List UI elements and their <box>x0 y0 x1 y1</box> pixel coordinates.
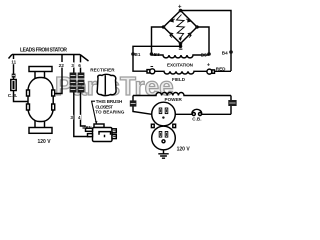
wire 4 to BRN brush terminal <box>81 93 86 127</box>
outlet slots top <box>159 108 168 137</box>
svg-text:3: 3 <box>70 115 73 120</box>
terminal dot B5 <box>207 52 211 56</box>
svg-text:4: 4 <box>78 115 81 120</box>
splice on lead 11 <box>12 74 16 78</box>
plus brush circle <box>207 69 212 74</box>
label 22 <box>58 62 65 69</box>
duplex receptacle bottom outlet <box>152 126 176 150</box>
RED wire to right border <box>215 70 232 72</box>
twist-lock receptacle body 120V left <box>29 67 52 72</box>
svg-text:+: + <box>178 5 182 11</box>
circuit breaker C.B. right <box>192 113 195 116</box>
callout leader to brush <box>92 101 97 123</box>
diode lower-right <box>187 32 191 36</box>
svg-text:C.B.: C.B. <box>192 117 201 122</box>
label 3 <box>70 62 74 68</box>
svg-text:120 V: 120 V <box>38 139 52 145</box>
minus brush circle <box>150 69 155 74</box>
svg-text:BRN: BRN <box>82 125 91 130</box>
svg-text:22: 22 <box>59 63 65 69</box>
svg-text:120 V: 120 V <box>177 146 191 152</box>
label minus brush <box>151 66 154 67</box>
duplex receptacle top outlet <box>152 102 176 126</box>
svg-text:B3: B3 <box>154 52 160 57</box>
svg-text:B1: B1 <box>135 52 141 57</box>
svg-text:RECTIFIER: RECTIFIER <box>90 68 115 73</box>
svg-text:C.B.: C.B. <box>8 93 18 99</box>
svg-text:11: 11 <box>11 60 16 65</box>
power wire right down to C.B. <box>230 96 232 115</box>
receptacle side tabs <box>27 90 30 96</box>
wire stator lead 3 <box>73 55 75 73</box>
bracket LEADS FROM STATOR <box>9 55 89 62</box>
terminal dot B1 <box>131 52 135 56</box>
svg-text:POWER: POWER <box>165 97 183 102</box>
svg-text:+: + <box>207 62 210 68</box>
terminal block right <box>228 100 236 106</box>
terminal block left <box>130 100 137 106</box>
bridge junction dots <box>162 9 199 48</box>
label minus below bridge <box>179 49 183 50</box>
svg-text:FIELD: FIELD <box>172 77 186 82</box>
terminal block connectors leads 3/6 <box>70 73 85 93</box>
label 11 <box>11 59 17 65</box>
svg-text:6: 6 <box>78 63 81 69</box>
AC wire left vertex to B3 <box>152 27 164 55</box>
terminal dot B4 <box>229 50 233 54</box>
svg-text:EXCITATION: EXCITATION <box>167 62 194 67</box>
svg-text:B4: B4 <box>222 50 228 55</box>
rectifier blob <box>97 74 116 95</box>
power wire left down to duplex receptacle <box>133 96 152 115</box>
wire C.B. to receptacle <box>14 91 28 102</box>
svg-text:TO BEARING: TO BEARING <box>95 110 124 115</box>
circuit breaker C.B. left <box>11 80 16 91</box>
power winding coil <box>133 92 231 95</box>
label 4 lower <box>77 115 81 120</box>
wire stator lead 11 <box>13 55 15 80</box>
AC wire right vertex to B5 <box>197 27 209 55</box>
wire stator lead 22 to receptacle <box>53 55 62 94</box>
svg-text:RED: RED <box>216 67 226 72</box>
label 6 <box>78 62 82 68</box>
wire stator lead 6 <box>80 55 82 73</box>
excitation winding coil <box>152 55 210 58</box>
svg-text:B5: B5 <box>201 52 207 57</box>
DC minus wire: bottom vertex to B1 and minus brush <box>133 44 181 72</box>
varistor zigzag inside bridge <box>177 15 185 40</box>
diode lower-left <box>169 32 173 36</box>
wire 3 to lower brush <box>74 93 91 137</box>
diode upper-left <box>170 18 174 22</box>
plus brush tab <box>212 70 215 73</box>
svg-text:3: 3 <box>71 63 74 69</box>
diode upper-right <box>187 18 191 22</box>
bridge rectifier diamond <box>164 11 198 44</box>
field winding coil <box>155 71 207 74</box>
minus brush tab <box>147 70 150 73</box>
DC plus wire: top vertex to right border down to + brush <box>181 11 232 72</box>
label 3 lower <box>70 115 74 120</box>
svg-text:LEADS FROM STATOR: LEADS FROM STATOR <box>20 48 67 54</box>
brush holder assembly <box>94 124 104 128</box>
terminal dot B3 <box>150 52 154 56</box>
ground symbol <box>158 150 168 158</box>
duplex waist tabs <box>151 124 154 127</box>
